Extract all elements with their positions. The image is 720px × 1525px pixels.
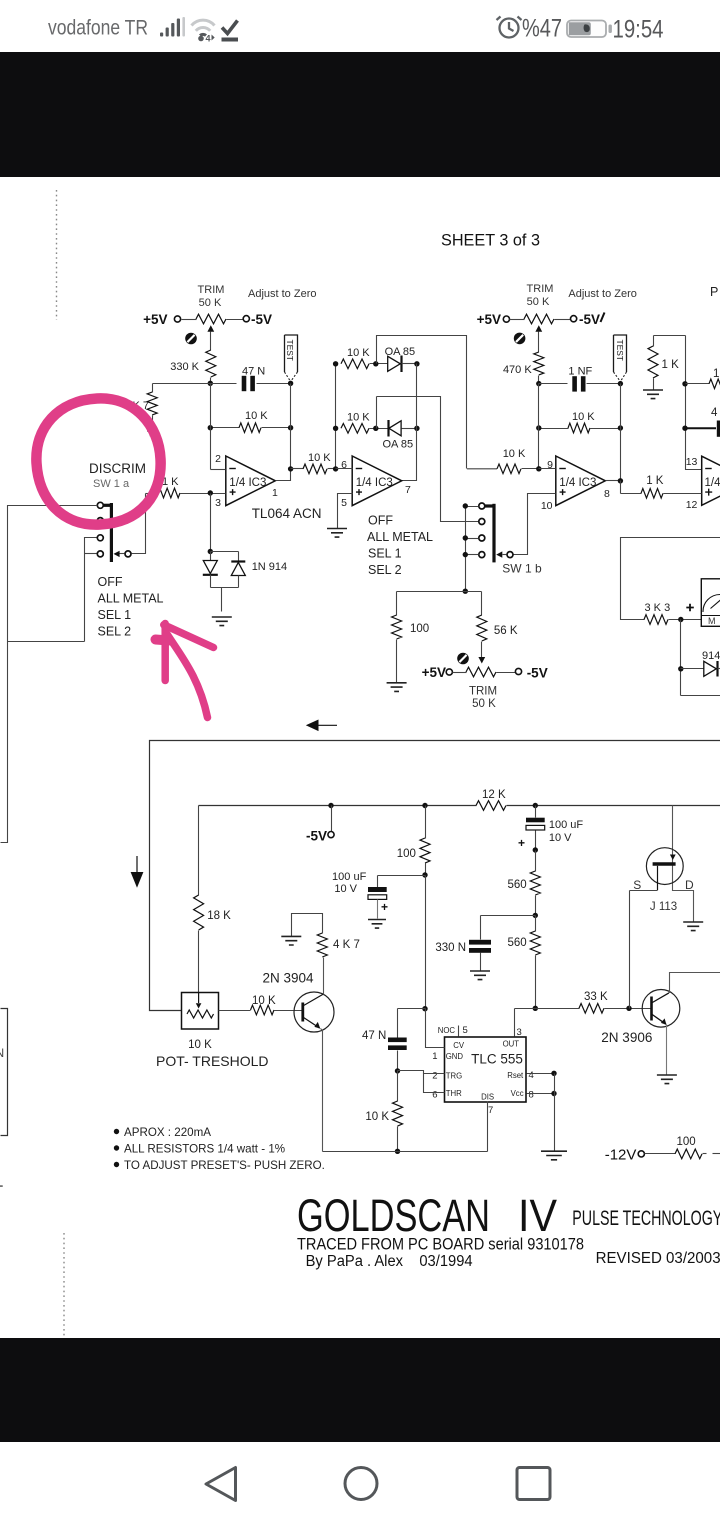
resistor 10K base <box>251 995 303 1015</box>
svg-text:2: 2 <box>215 453 221 465</box>
transistor Q1 2N3904 <box>263 971 335 1033</box>
svg-text:9: 9 <box>547 459 553 471</box>
ground 555 <box>541 1151 567 1160</box>
svg-text:OFF: OFF <box>368 514 393 528</box>
svg-text:33 K: 33 K <box>584 991 608 1003</box>
svg-text:SEL 2: SEL 2 <box>98 625 132 639</box>
nav back triangle <box>206 1468 236 1501</box>
node stage2 in top <box>333 361 338 366</box>
capacitor 1NF <box>539 366 621 392</box>
node 100/100uF junction <box>422 872 427 877</box>
node D2 <box>618 425 623 430</box>
svg-text:50 K: 50 K <box>527 296 550 308</box>
wire SW1a contact1 to left edge <box>1 506 98 843</box>
svg-text:1N 914: 1N 914 <box>252 561 287 573</box>
svg-text:2: 2 <box>432 1071 437 1082</box>
svg-text:OA 85: OA 85 <box>383 439 414 451</box>
svg-text:2N 3906: 2N 3906 <box>601 1030 652 1045</box>
svg-text:1/4 IC3: 1/4 IC3 <box>356 477 393 489</box>
svg-text:-5V: -5V <box>306 829 327 844</box>
svg-text:10 K: 10 K <box>347 412 370 424</box>
potentiometer 10K POT-TRESHOLD <box>182 992 219 1051</box>
wire -5V/GND column <box>425 876 427 1009</box>
svg-text:7: 7 <box>405 484 411 496</box>
svg-text:10 K: 10 K <box>347 347 370 359</box>
svg-text:10 V: 10 V <box>549 832 572 844</box>
node OA85b left <box>373 426 378 431</box>
flow arrow left (on top wire) <box>306 720 337 732</box>
svg-text:OFF: OFF <box>98 575 123 589</box>
resistor 10K feedback stage3 <box>539 411 621 433</box>
svg-text:56 K: 56 K <box>494 625 518 637</box>
IC TLC555 <box>445 1037 527 1102</box>
node A1 (330K bottom / 47N row) <box>208 381 213 386</box>
svg-text:3: 3 <box>517 1027 522 1038</box>
wire stage4 input column <box>686 336 702 470</box>
svg-text:10 K: 10 K <box>365 1111 389 1123</box>
svg-text:10 V: 10 V <box>334 883 357 895</box>
ground pin5 <box>327 529 347 538</box>
svg-text:914: 914 <box>702 650 720 662</box>
capacitor 100uF 10V (right) <box>518 803 583 853</box>
wire OUT row <box>515 1008 580 1010</box>
bullet note 1 <box>114 1126 211 1139</box>
svg-text:TL064 ACN: TL064 ACN <box>252 506 322 521</box>
svg-text:REVISED 03/2003: REVISED 03/2003 <box>596 1250 720 1267</box>
resistor 100 (-12V feed) <box>675 1136 720 1159</box>
resistor 10K feedback2a <box>341 347 388 369</box>
wire bottom rail <box>323 1151 488 1153</box>
svg-text:1/4 IC3: 1/4 IC3 <box>559 477 596 489</box>
svg-text:TRACED FROM PC BOARD serial 93: TRACED FROM PC BOARD serial 9310178 <box>297 1235 584 1254</box>
svg-text:-5V: -5V <box>579 312 600 327</box>
svg-text:560: 560 <box>508 937 527 949</box>
wire emitter Q2 to ground <box>666 1025 668 1076</box>
svg-text:12: 12 <box>686 499 698 511</box>
check icon <box>222 21 238 34</box>
resistor 10K interstage 2-3 <box>467 448 539 474</box>
svg-text:ALL METAL: ALL METAL <box>367 530 433 544</box>
svg-text:SW 1 a: SW 1 a <box>93 478 130 490</box>
svg-text:-5V: -5V <box>527 666 548 681</box>
svg-text:330 N: 330 N <box>435 942 466 954</box>
wire bottom rail SW1b <box>397 591 482 593</box>
svg-text:vodafone TR: vodafone TR <box>48 17 148 40</box>
ground 4K7 <box>281 936 301 945</box>
pin 3 OUT wire <box>515 1009 522 1039</box>
node SW1b c3 <box>463 535 468 540</box>
plus sign meter <box>686 604 694 612</box>
pin 6 THR wire <box>424 1074 445 1101</box>
resistor 10K interstage 1-2 <box>291 452 336 474</box>
resistor 1K interstage 3-4 <box>621 475 702 498</box>
switch SW1b <box>479 503 513 562</box>
svg-text:Adjust to Zero: Adjust to Zero <box>248 288 316 300</box>
svg-text:10 K: 10 K <box>572 411 595 423</box>
svg-text:4: 4 <box>206 34 211 44</box>
trimmer TRIM2 50K (stage 3 offset) <box>477 283 600 353</box>
svg-text:SEL 1: SEL 1 <box>98 608 132 622</box>
wire pin6 <box>336 468 353 470</box>
svg-text:TRIM: TRIM <box>198 284 225 296</box>
node stage2 pin6 <box>333 466 338 471</box>
svg-text:Adjust to Zero: Adjust to Zero <box>568 288 636 300</box>
svg-text:100 uF: 100 uF <box>549 819 584 831</box>
svg-text:560: 560 <box>508 879 527 891</box>
stray mark near Adjust to Zero <box>601 313 605 323</box>
svg-text:8: 8 <box>529 1090 534 1101</box>
svg-text:DISCRIM: DISCRIM <box>89 461 146 476</box>
wire pin5 to ground <box>338 494 353 529</box>
capacitor 100uF 10V (left) <box>332 871 425 919</box>
resistor 10K feedback stage1 <box>211 410 291 433</box>
svg-text:APROX : 220mA: APROX : 220mA <box>124 1126 211 1139</box>
trimmer TRIM1 50K (stage 1 offset) <box>143 284 272 351</box>
wire column stage1 output <box>290 384 292 469</box>
ground 100uF left <box>368 920 386 929</box>
svg-text:J 113: J 113 <box>650 901 677 913</box>
node A2 <box>208 425 213 430</box>
trimmer TRIM3 50K (threshold zero) <box>422 665 548 710</box>
svg-text:+5V: +5V <box>477 312 501 327</box>
resistor 12K (in rail) <box>476 789 506 810</box>
svg-text:TRIM: TRIM <box>469 686 497 698</box>
op-amp U1A 1/4 IC3 <box>226 456 275 506</box>
wire pin2 input <box>211 469 226 471</box>
resistor 1K stage1 input <box>146 476 226 498</box>
node SW1b c1 <box>463 503 468 508</box>
JFET J113 <box>630 806 695 1009</box>
svg-text:7: 7 <box>488 1105 493 1116</box>
svg-text:TRG: TRG <box>446 1072 462 1081</box>
dotted margin line top <box>56 190 58 320</box>
svg-text:Rset: Rset <box>507 1071 524 1080</box>
svg-text:1: 1 <box>272 487 278 499</box>
ground J113 drain <box>683 922 703 931</box>
wire pin10 to SW1b wiper <box>514 494 556 555</box>
node bottom rail <box>395 1149 400 1154</box>
test point TEST1 <box>285 335 298 384</box>
nav home circle <box>345 1468 377 1500</box>
annotation pink arrow <box>156 624 214 718</box>
node SW1b c4 <box>463 552 468 557</box>
svg-text:10: 10 <box>541 500 553 512</box>
svg-text:OA 85: OA 85 <box>385 346 416 358</box>
resistor 100 (to ground) <box>392 592 430 683</box>
svg-text:TEST: TEST <box>285 340 295 361</box>
svg-text:19:54: 19:54 <box>613 16 664 44</box>
svg-text:Vcc: Vcc <box>511 1089 524 1098</box>
node OA85b right <box>414 426 419 431</box>
resistor right edge (clipped) <box>686 368 720 389</box>
wire -5V rail <box>199 805 477 807</box>
svg-text:SEL 2: SEL 2 <box>368 563 402 577</box>
svg-text:1 K: 1 K <box>662 359 680 371</box>
pin 4 Rset wire <box>527 1070 557 1081</box>
node B2 <box>288 425 293 430</box>
wire op-amp1 output <box>276 469 291 481</box>
node pin3 / diode junction <box>208 490 213 495</box>
svg-text:-5V: -5V <box>251 312 272 327</box>
resistor 10K feedback2b <box>341 412 389 434</box>
svg-text:100: 100 <box>677 1136 696 1148</box>
wire emitter Q1 to bottom rail <box>321 1029 323 1152</box>
diode 914 <box>678 620 720 696</box>
resistor 1K to ground (stage4 bias) <box>648 336 686 391</box>
node output stage3 <box>618 478 623 483</box>
alarm clock icon <box>497 17 522 38</box>
resistor 4K7 (stage1 input) <box>123 384 157 436</box>
node cathode OA85a <box>414 361 419 366</box>
svg-text:2N 3904: 2N 3904 <box>263 971 315 986</box>
-5V terminal <box>306 803 334 844</box>
-12V terminal <box>605 1147 676 1164</box>
flow arrow down (left side) <box>131 856 144 888</box>
svg-text:1 K: 1 K <box>713 368 720 380</box>
resistor 3K3 <box>644 602 702 624</box>
svg-text:TLC 555: TLC 555 <box>471 1052 523 1067</box>
op-amp U1D 1/4 IC3 (clipped) <box>702 456 720 505</box>
resistor 33K <box>579 991 652 1013</box>
svg-text:DIS: DIS <box>481 1092 494 1101</box>
wire collector Q2 to right <box>669 973 720 993</box>
svg-text:4 K 7: 4 K 7 <box>333 939 360 951</box>
node 555 out row <box>533 1006 538 1011</box>
wire column stage3 inverting <box>538 384 540 469</box>
left edge connector box <box>0 1009 8 1136</box>
svg-text:1 NF: 1 NF <box>568 366 592 378</box>
wire stage3 output to 1K <box>620 481 622 494</box>
resistor 560 (upper) <box>508 851 541 916</box>
svg-text:By PaPa . Alex 03/1994: By PaPa . Alex 03/1994 <box>306 1253 473 1270</box>
diode OA85b <box>383 420 417 451</box>
wire big loop rectangle top/left <box>150 741 720 1011</box>
wire feedback link top (to stage3 input) <box>377 336 467 469</box>
nav recents square <box>517 1468 550 1500</box>
wire op-amp3 output <box>606 480 621 482</box>
wire feedback from op-amp4 output (right edge) <box>621 538 720 620</box>
svg-text:GOLDSCAN: GOLDSCAN <box>297 1190 490 1241</box>
wire column stage3 output <box>620 384 622 481</box>
capacitor 47N (555 timing) <box>362 1009 407 1071</box>
svg-text:OUT: OUT <box>503 1040 520 1049</box>
svg-text:1/4 IC3: 1/4 IC3 <box>229 477 266 489</box>
wire SW1b left bus <box>466 507 479 592</box>
meter M1 <box>701 579 720 627</box>
node B1 (TEST1 / 47N row) <box>288 381 293 386</box>
node meter + <box>678 617 683 622</box>
pin 8 Vcc wire <box>527 1090 557 1101</box>
svg-text:N: N <box>0 1046 4 1060</box>
wire SW1a contacts 3+4 bus <box>8 538 97 642</box>
svg-text:POT- TRESHOLD: POT- TRESHOLD <box>156 1053 269 1069</box>
annotation pink circle around DISCRIM <box>36 398 160 524</box>
svg-text:THR: THR <box>446 1089 462 1098</box>
resistor 10K (555 timing) <box>365 1071 402 1152</box>
svg-text:1/4: 1/4 <box>705 477 720 489</box>
diode pair 1N914 <box>203 494 287 612</box>
wire stage2 inverting column <box>335 364 337 469</box>
wire pin9 <box>539 468 556 470</box>
svg-text:+: + <box>381 900 388 914</box>
bullet note 3 <box>114 1159 325 1172</box>
svg-text:10 K: 10 K <box>188 1039 212 1051</box>
svg-text:47 N: 47 N <box>242 366 265 378</box>
op-amp U1C 1/4 IC3 <box>556 456 606 506</box>
svg-text:ALL METAL: ALL METAL <box>98 592 164 606</box>
resistor 330K <box>170 350 216 384</box>
svg-text:M: M <box>708 616 716 626</box>
ground below 1K <box>643 390 663 399</box>
svg-text:+5V: +5V <box>143 312 167 327</box>
svg-text:ALL RESISTORS 1/4 watt - 1%: ALL RESISTORS 1/4 watt - 1% <box>124 1143 285 1156</box>
wire rail right part <box>507 805 720 807</box>
svg-text:4: 4 <box>711 407 718 419</box>
svg-text:+5V: +5V <box>422 665 446 680</box>
pin 5 NOC <box>438 1025 468 1037</box>
svg-text:SHEET 3 of 3: SHEET 3 of 3 <box>441 231 540 250</box>
svg-text:8: 8 <box>604 488 610 500</box>
svg-text:100 uF: 100 uF <box>332 871 367 883</box>
svg-text:50 K: 50 K <box>199 297 222 309</box>
svg-text:%47: %47 <box>522 15 562 43</box>
wire SW1a wiper to 1K <box>132 494 146 554</box>
pin 7 DIS wire <box>488 1102 494 1152</box>
resistor 56K <box>477 592 518 664</box>
op-amp U1B 1/4 IC3 <box>352 456 402 506</box>
svg-text:13: 13 <box>686 456 698 468</box>
node C2 <box>536 425 541 430</box>
node E2 <box>682 426 687 431</box>
svg-text:12 K: 12 K <box>482 789 506 801</box>
svg-text:SW 1 b: SW 1 b <box>502 562 542 576</box>
node pin9 <box>536 466 541 471</box>
ground Q2 emitter <box>657 1075 677 1084</box>
wire collector Q1 to 4K7 <box>323 958 325 995</box>
dotted margin line bottom <box>63 1233 65 1336</box>
wire pot right to 10K <box>219 1010 251 1012</box>
resistor 100 (rail dropper) <box>397 806 430 876</box>
svg-text:TEST: TEST <box>615 340 625 361</box>
trimmer screw symbol TRIM3 <box>457 653 469 665</box>
title GOLDSCAN IV <box>297 1190 720 1241</box>
svg-text:100: 100 <box>397 848 416 860</box>
svg-text:-12V: -12V <box>605 1147 637 1164</box>
svg-text:PULSE TECHNOLOGY: PULSE TECHNOLOGY <box>572 1207 720 1230</box>
svg-text:330 K: 330 K <box>170 361 199 373</box>
svg-text:5: 5 <box>341 497 347 509</box>
node SW1b bus bottom <box>463 589 468 594</box>
trimmer screw symbol TRIM1 <box>185 333 197 345</box>
signal bars icon <box>160 17 185 37</box>
svg-text:TRIM: TRIM <box>527 283 554 295</box>
svg-text:10 K: 10 K <box>245 410 268 422</box>
ground below 1N914 <box>212 617 232 626</box>
node anode OA85a <box>373 361 378 366</box>
node E1 <box>682 381 687 386</box>
svg-text:3 K 3: 3 K 3 <box>645 602 671 614</box>
wire column stage1 inverting <box>210 384 212 470</box>
capacitor 330N <box>435 916 535 972</box>
switch SW1a <box>97 502 131 562</box>
svg-text:10 K: 10 K <box>503 448 526 460</box>
node 560/560/330N <box>533 913 538 918</box>
svg-text:4: 4 <box>529 1070 534 1081</box>
capacitor 47N <box>211 366 291 392</box>
svg-text:1 K: 1 K <box>646 475 664 487</box>
svg-text:NOC: NOC <box>438 1026 456 1035</box>
diode OA85a <box>385 346 417 372</box>
svg-text:3: 3 <box>215 497 221 509</box>
svg-text:D: D <box>685 878 694 892</box>
svg-text:10 K: 10 K <box>308 452 331 464</box>
svg-text:CV: CV <box>453 1041 465 1050</box>
wire feedback link mid (to SW1b) <box>376 397 378 429</box>
svg-text:S: S <box>633 878 641 892</box>
test point TEST2 <box>614 335 627 384</box>
node 33K/J113 S <box>626 1006 631 1011</box>
wire 47N top link <box>398 1008 426 1010</box>
svg-text:GND: GND <box>446 1052 464 1061</box>
svg-text:TO ADJUST PRESET'S- PUSH ZERO: TO ADJUST PRESET'S- PUSH ZERO. <box>124 1159 325 1172</box>
svg-text:6: 6 <box>432 1090 437 1101</box>
resistor 18K <box>194 806 232 993</box>
wire 4K7 top to node A1 <box>153 383 211 385</box>
node rail / 100 resistor <box>422 803 427 808</box>
ground 330N <box>470 971 490 980</box>
svg-text:+: + <box>518 836 525 850</box>
node output stage1 <box>288 466 293 471</box>
node D1 (TEST2 / 1NF row) <box>618 381 623 386</box>
svg-text:5: 5 <box>463 1025 468 1036</box>
ground below 100 <box>387 683 407 692</box>
transistor Q2 2N3906 <box>601 990 680 1046</box>
svg-text:100: 100 <box>410 623 429 635</box>
trimmer screw symbol TRIM2 <box>514 333 526 345</box>
svg-text:P: P <box>710 285 718 299</box>
pin 1 GND wire <box>422 1006 444 1062</box>
wifi icon <box>192 20 215 35</box>
svg-text:T: T <box>0 1182 4 1198</box>
resistor 560 (lower) <box>508 916 541 1009</box>
svg-text:50 K: 50 K <box>472 698 496 710</box>
svg-text:470 K: 470 K <box>503 364 532 376</box>
node TRG/THR <box>395 1068 400 1073</box>
svg-text:18 K: 18 K <box>207 910 231 922</box>
resistor 4K7 (Q1 collector) <box>292 914 360 958</box>
node stage2 in mid <box>333 426 338 431</box>
wire stage2 output column <box>402 364 417 481</box>
resistor 470K <box>503 352 544 384</box>
svg-text:SEL 1: SEL 1 <box>368 547 402 561</box>
node C1 (470K bottom / 1NF row) <box>536 381 541 386</box>
battery icon <box>567 21 612 38</box>
capacitor right edge (clipped) <box>685 407 720 437</box>
svg-text:47 N: 47 N <box>362 1030 386 1042</box>
svg-text:10 K: 10 K <box>252 995 276 1007</box>
bullet note 2 <box>114 1143 285 1156</box>
svg-text:6: 6 <box>341 459 347 471</box>
wire Vcc/Rset to ground <box>554 1074 556 1152</box>
pin 2 TRG wire <box>398 1071 445 1082</box>
svg-text:1: 1 <box>432 1051 437 1062</box>
svg-text:IV: IV <box>518 1190 557 1241</box>
